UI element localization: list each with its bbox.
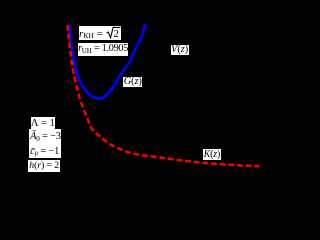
label K(z)	[203, 149, 221, 160]
label h(r) = 2	[28, 160, 60, 173]
label Abar0 = -3 and cbar_rho = -1	[29, 129, 62, 158]
wire: blue solid curve V(z)/G(z)	[69, 24, 145, 100]
label Lambda = 1	[31, 117, 56, 130]
label V(z)	[171, 45, 189, 55]
svg-text:2: 2	[113, 29, 118, 39]
label r_UH = 1.0905	[78, 43, 129, 56]
curves	[0, 0, 273, 181]
wire: red dashed curve K(z)	[68, 25, 260, 166]
label G(z)	[123, 77, 142, 87]
label r_KH = sqrt(2)	[79, 26, 121, 41]
